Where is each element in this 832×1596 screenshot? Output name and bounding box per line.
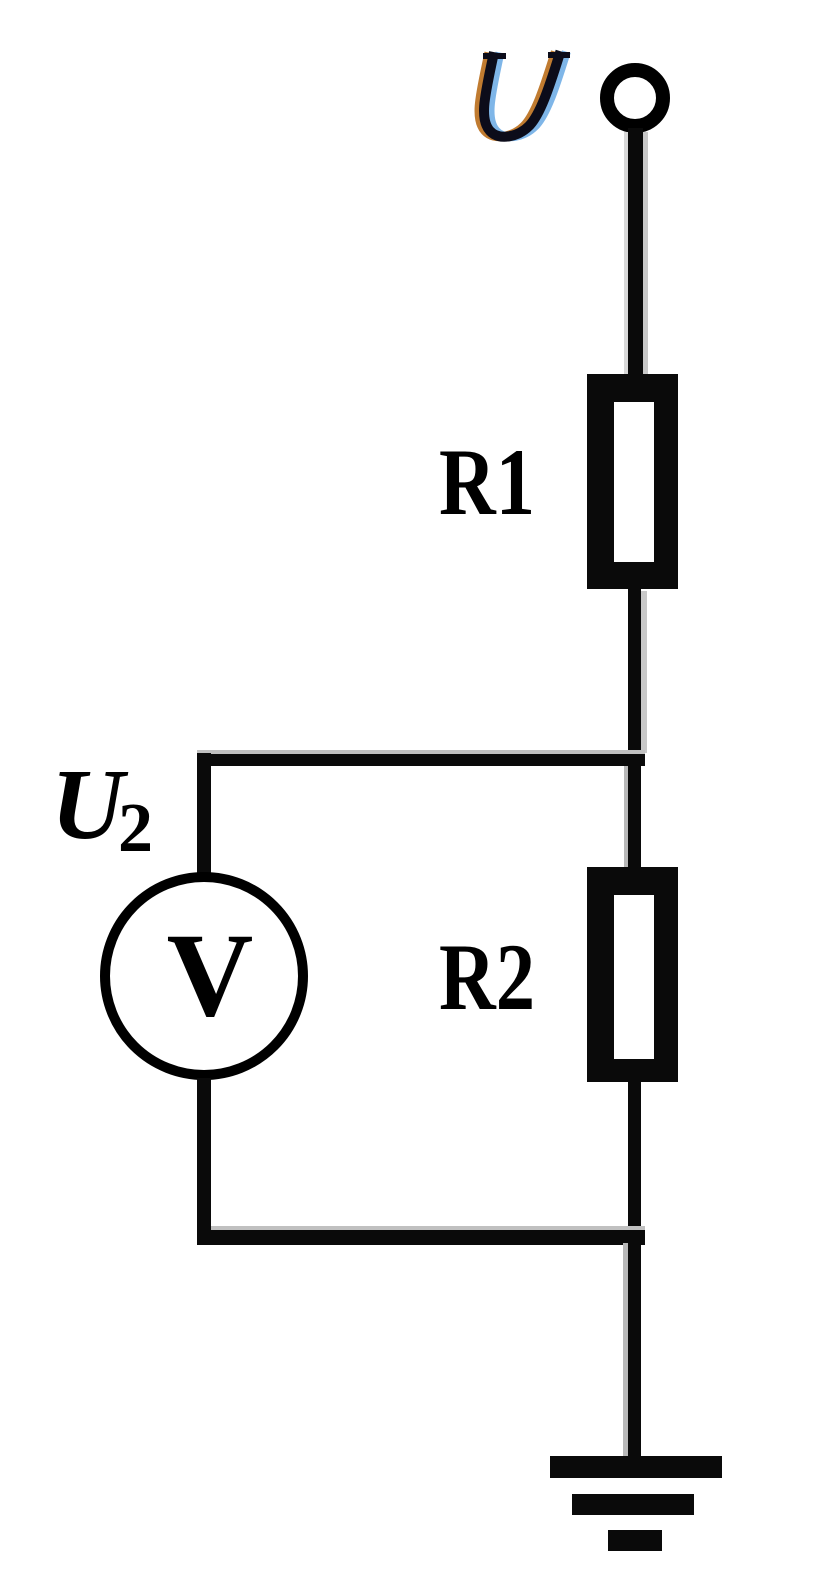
label U2	[51, 748, 153, 867]
voltmeter V1 circle	[105, 877, 303, 1075]
resistor R2	[587, 867, 678, 1082]
svg-text:V: V	[167, 908, 254, 1041]
wire R1 to R2	[641, 591, 647, 753]
label U (supply voltage)	[479, 55, 567, 137]
svg-text:2: 2	[118, 790, 153, 867]
svg-text:R2: R2	[439, 924, 535, 1030]
wire terminal to R1	[643, 132, 648, 378]
ground symbol	[550, 1456, 722, 1551]
svg-text:R1: R1	[439, 429, 535, 535]
wire voltmeter bottom to bottom rail	[197, 1078, 211, 1238]
wire bottom rail to ground	[623, 1243, 628, 1456]
terminal (open circle)	[607, 70, 663, 126]
resistor R1	[587, 374, 678, 589]
wire left vertical to voltmeter top	[197, 753, 211, 879]
wire bottom horizontal	[197, 1226, 645, 1231]
wire top horizontal (node to voltmeter)	[197, 750, 645, 755]
wire R2 bottom to bottom rail	[628, 1082, 641, 1243]
